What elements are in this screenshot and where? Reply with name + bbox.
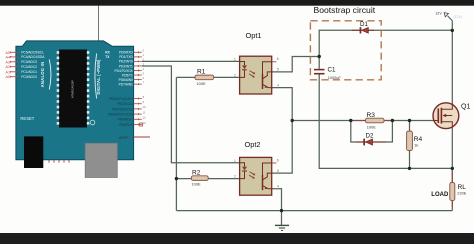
diode D2 xyxy=(356,132,386,145)
svg-text:PB3/MOSI/OC2A: PB3/MOSI/OC2A xyxy=(108,113,134,117)
wire R1 row xyxy=(176,76,239,78)
resistor R1 xyxy=(195,69,214,87)
svg-text:1000uF: 1000uF xyxy=(328,76,342,80)
junction Q1 source / RL top node xyxy=(451,167,454,170)
resistor RL xyxy=(450,171,467,207)
svg-text:12V: 12V xyxy=(435,11,442,15)
Opt1 pin numbers xyxy=(234,57,279,87)
junction R4 bottom / source line node xyxy=(408,167,411,170)
svg-text:A0: A0 xyxy=(6,75,11,79)
svg-text:2: 2 xyxy=(234,175,236,179)
svg-text:PD1/TXD: PD1/TXD xyxy=(119,55,133,59)
svg-text:6: 6 xyxy=(277,158,279,162)
power jack xyxy=(85,143,117,177)
svg-text:Bootstrap circuit: Bootstrap circuit xyxy=(314,5,376,15)
svg-text:PC5/ADC5/SCL: PC5/ADC5/SCL xyxy=(21,51,44,55)
wire R2 row xyxy=(176,178,239,180)
svg-text:PB2/SS/OC1B: PB2/SS/OC1B xyxy=(112,107,134,111)
svg-text:AREF: AREF xyxy=(118,136,130,140)
bottom ground wire xyxy=(176,210,452,212)
svg-text:R2: R2 xyxy=(192,170,201,177)
Opt1 internal leads xyxy=(240,62,272,88)
resistor R3 body xyxy=(366,118,385,123)
resistor R2 xyxy=(191,170,208,187)
analog bracket xyxy=(49,60,51,90)
resistor R2 body xyxy=(191,176,208,181)
svg-text:4: 4 xyxy=(277,185,279,189)
opto Opt2 body xyxy=(240,157,272,195)
Opt2 pin numbers xyxy=(234,158,279,188)
ground symbol xyxy=(275,225,289,230)
bottom letterbox bar xyxy=(0,233,474,244)
diode D2 cathode bar xyxy=(363,139,365,146)
Opt2 LED triangle xyxy=(242,167,247,171)
right pin number digits PB xyxy=(143,95,146,125)
junction C1 top / Opt1 pin5 / D1 node xyxy=(318,55,321,58)
wire PD2 to Opt1 pin1 xyxy=(142,60,240,62)
right digital pin labels xyxy=(115,51,134,87)
svg-text:13: 13 xyxy=(143,121,146,125)
svg-text:A5: A5 xyxy=(6,51,11,55)
svg-text:A3: A3 xyxy=(6,60,11,64)
right pin number digits PD xyxy=(143,49,145,85)
svg-text:R1: R1 xyxy=(197,69,206,76)
svg-text:PC1/ADC1: PC1/ADC1 xyxy=(21,70,37,74)
D2 loop wire xyxy=(351,121,393,143)
Opt1 phototransistor base bar xyxy=(262,74,264,89)
svg-text:5: 5 xyxy=(277,68,279,72)
svg-text:5: 5 xyxy=(277,169,279,173)
Opt1 LED triangle xyxy=(242,65,247,69)
svg-text:PD6/AIN0: PD6/AIN0 xyxy=(119,78,133,82)
left A pin labels red xyxy=(6,51,11,79)
arduino board body xyxy=(16,41,134,160)
junction ground node xyxy=(280,209,283,212)
svg-text:(12V): (12V) xyxy=(454,15,463,19)
Opt2 emitter arrow xyxy=(265,187,268,189)
svg-text:1: 1 xyxy=(234,58,236,62)
svg-text:D2: D2 xyxy=(366,132,374,139)
diode D1 cathode bar xyxy=(360,27,362,33)
optocoupler Opt1 xyxy=(234,31,279,94)
MOSFET Q1 xyxy=(433,103,470,129)
top letterbox bar xyxy=(0,0,474,6)
resistor RL body xyxy=(450,183,455,201)
svg-text:6: 6 xyxy=(277,57,279,61)
Opt1 emitter arrow xyxy=(265,86,268,88)
diode D1 xyxy=(352,21,374,34)
svg-text:ATMEGA328P: ATMEGA328P xyxy=(71,80,75,98)
svg-text:A1: A1 xyxy=(6,70,11,74)
svg-text:PC2/ADC2: PC2/ADC2 xyxy=(21,65,37,69)
svg-text:2: 2 xyxy=(234,74,236,78)
right red pin stubs PD xyxy=(134,51,142,85)
Q1 source rail down xyxy=(451,127,453,211)
Opt2 light arrow heads xyxy=(253,173,256,175)
svg-text:PB5/SCK: PB5/SCK xyxy=(119,123,133,127)
svg-text:220E: 220E xyxy=(457,191,466,196)
svg-text:DIGITAL (~PWM): DIGITAL (~PWM) xyxy=(96,59,101,95)
junction R1 / R2 node xyxy=(175,177,178,180)
svg-text:Q1: Q1 xyxy=(461,104,470,111)
svg-text:PC3/ADC3: PC3/ADC3 xyxy=(21,60,37,64)
Q1 channel arrow xyxy=(442,114,446,117)
stray vertical line top xyxy=(98,6,100,42)
resistor R1 body xyxy=(195,75,214,80)
bottom power pin ticks xyxy=(49,160,69,163)
D1 rail wire xyxy=(319,30,452,56)
left analog pin labels xyxy=(21,51,45,79)
svg-text:10: 10 xyxy=(143,105,146,109)
IC pins right xyxy=(87,51,90,124)
C1 bottom to source rail wire xyxy=(319,75,452,169)
ground stub xyxy=(281,211,283,226)
resistor R4 xyxy=(407,131,423,150)
Opt1 light arrows xyxy=(249,71,254,77)
junction R3 right / D2 cathode node xyxy=(391,119,394,122)
Q1 internal MOSFET symbol xyxy=(433,104,452,127)
Opt2 phototransistor base bar xyxy=(262,175,264,190)
Opt2 internal leads xyxy=(240,163,272,189)
svg-text:PD3/INT1: PD3/INT1 xyxy=(119,64,133,68)
gate line wire xyxy=(292,120,434,122)
Opt1 pin 6 stub xyxy=(272,61,277,63)
PB5 unconnected pin marker xyxy=(140,123,143,126)
svg-text:A4: A4 xyxy=(6,55,11,59)
Opt2 pin4 to ground wire xyxy=(272,189,282,211)
resistor RL leads xyxy=(451,171,453,183)
12V terminal stem xyxy=(448,16,453,21)
opto Opt1 body xyxy=(240,56,272,94)
Opt1 light arrow heads xyxy=(253,72,256,74)
svg-text:PD0/RXD: PD0/RXD xyxy=(119,51,134,55)
svg-text:LOAD: LOAD xyxy=(431,192,449,198)
junction Opt1 pin4 / Opt2 pin5 / gate line node xyxy=(291,119,294,122)
diode D1 triangle xyxy=(362,28,369,34)
digital bracket xyxy=(95,54,97,99)
svg-text:PB0/ICP1/CLKO: PB0/ICP1/CLKO xyxy=(109,97,133,101)
svg-text:100E: 100E xyxy=(197,81,206,86)
junction R3 left / D2 anode node xyxy=(349,119,352,122)
diode D2 leads xyxy=(356,141,364,143)
svg-text:A2: A2 xyxy=(6,65,11,69)
right PB pin labels xyxy=(108,97,134,127)
svg-text:100E: 100E xyxy=(192,181,201,186)
left red pin stubs xyxy=(10,51,19,77)
capacitor C1 bottom plate xyxy=(314,73,325,75)
svg-text:PD2/INT0: PD2/INT0 xyxy=(119,60,133,64)
svg-text:PB1/OC1A: PB1/OC1A xyxy=(117,102,134,106)
wire R1 left vertical to R2 junction and ground rail xyxy=(175,77,177,210)
svg-text:PD4/T0/XCK: PD4/T0/XCK xyxy=(115,69,134,73)
svg-text:100E: 100E xyxy=(367,124,376,129)
resistor R4 body xyxy=(407,131,413,150)
svg-text:PD5/T1: PD5/T1 xyxy=(122,73,133,77)
resistor R3 xyxy=(351,112,393,129)
svg-text:PC4/ADC4/SDA: PC4/ADC4/SDA xyxy=(21,55,45,59)
IC pins left xyxy=(57,51,60,124)
Opt1 pin5 to bootstrap junction wire xyxy=(272,57,320,72)
R4 branch wire xyxy=(409,121,411,169)
Opt2 pin 6 stub xyxy=(272,162,277,164)
C1 top lead wire xyxy=(318,57,320,69)
svg-text:PC0/ADC0: PC0/ADC0 xyxy=(21,75,37,79)
right red pin stubs PB xyxy=(134,98,142,126)
AREF pin stub xyxy=(134,136,150,138)
Opt2 light arrows xyxy=(249,172,254,178)
svg-text:C1: C1 xyxy=(328,67,336,74)
svg-text:D1: D1 xyxy=(360,21,368,28)
svg-text:4: 4 xyxy=(277,83,279,87)
12V rail down to Q1 xyxy=(451,21,453,105)
IC chip xyxy=(59,50,87,128)
svg-text:12: 12 xyxy=(143,116,146,120)
wire PD3 down to Opt2 pin1 xyxy=(142,66,240,163)
svg-text:Opt2: Opt2 xyxy=(245,140,261,149)
svg-text:PB4/MISO: PB4/MISO xyxy=(118,118,134,122)
diode D2 triangle xyxy=(366,139,373,145)
12V power terminal xyxy=(435,11,462,20)
diode D1 leads xyxy=(352,29,360,31)
optocoupler Opt2 xyxy=(234,140,279,195)
svg-text:R3: R3 xyxy=(367,112,376,119)
svg-text:1k: 1k xyxy=(414,143,418,148)
silkscreen arc xyxy=(90,120,95,125)
svg-text:Opt1: Opt1 xyxy=(246,31,262,40)
12V terminal arrow xyxy=(444,13,448,17)
wire Opt1 pin4 down to Opt2 pin5 xyxy=(272,88,293,174)
resistor R3 leads xyxy=(351,120,366,122)
svg-text:RESET: RESET xyxy=(20,116,34,121)
capacitor C1 xyxy=(314,67,341,80)
svg-text:1: 1 xyxy=(234,159,236,163)
junction 12V rail / D1 cathode node xyxy=(451,29,454,32)
junction R4 top / gate line node xyxy=(408,119,411,122)
svg-text:RX: RX xyxy=(105,51,110,55)
usb connector xyxy=(24,136,43,168)
RX TX labels xyxy=(105,51,110,60)
svg-text:PD7/AIN1: PD7/AIN1 xyxy=(119,83,133,87)
transistor Q1 body circle xyxy=(433,103,459,129)
capacitor C1 top plate xyxy=(314,69,325,71)
svg-text:ANALOG IN: ANALOG IN xyxy=(40,62,45,88)
